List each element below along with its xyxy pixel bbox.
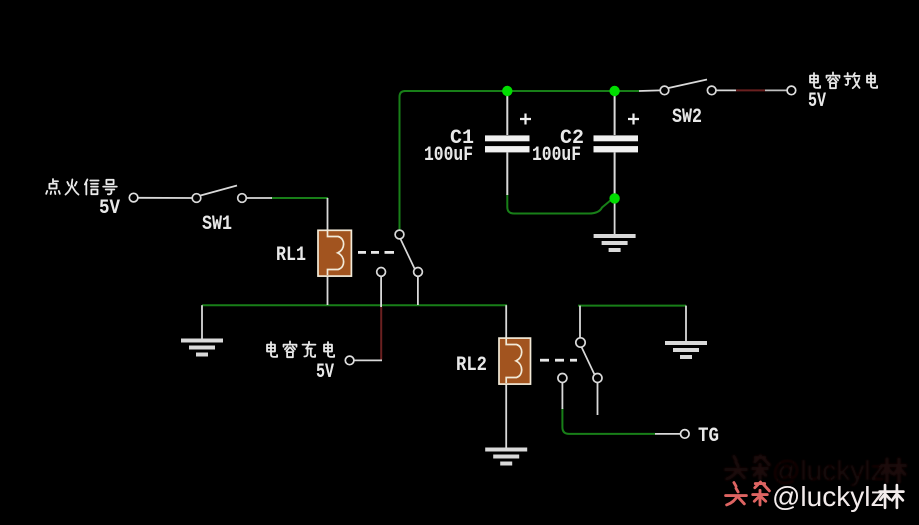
wire: RL2 throw-left pin (561, 383, 563, 409)
label 点火信号 (46, 179, 117, 194)
svg-text:RL1: RL1 (276, 244, 306, 267)
wire: ground rail right (green) (578, 305, 686, 307)
relay coil RL2 (499, 338, 531, 384)
switch SW1 (192, 186, 246, 203)
wire: top horizontal net to SW2 (404, 90, 639, 92)
wire: SW2 right stub white (716, 89, 736, 91)
dashed link RL1 (358, 251, 394, 254)
relay contact RL1 (SPDT) (377, 230, 423, 276)
wire: RL1 coil bottom pin (327, 275, 329, 305)
wire: RL1 coil top pin (327, 198, 329, 231)
svg-text:5V: 5V (316, 361, 334, 384)
relay contact RL2 (SPDT) (558, 338, 602, 383)
wire: RL2 contact to TG (green) (562, 408, 655, 434)
wire: C2 node to ground (614, 200, 616, 234)
terminal: charge (345, 356, 354, 365)
terminal: TG (681, 430, 690, 439)
ground: left (181, 341, 223, 355)
wire: RL2 throw-right pin (unconnected) (597, 383, 599, 415)
label 电容充电 (267, 341, 334, 357)
plus sign C2 (628, 114, 639, 125)
junction node: top net at C1 (502, 86, 512, 96)
wire: RL1 contact throw-right pin (417, 276, 419, 305)
junction node: C2 bottom (609, 193, 619, 203)
svg-text:100uF: 100uF (532, 144, 581, 167)
watermark ghost (726, 455, 906, 486)
terminal: discharge (787, 86, 796, 95)
svg-text:SW2: SW2 (672, 106, 702, 129)
svg-text:@luckylz: @luckylz (772, 481, 884, 512)
plus sign C1 (520, 114, 531, 125)
wire: RL1 contact throw-left pin (380, 276, 382, 307)
ground: right (665, 343, 707, 357)
wire: main vertical net to relay contact RL1 (400, 91, 406, 231)
capacitor C2 (594, 135, 639, 152)
ground: C2 (594, 236, 636, 250)
svg-text:RL2: RL2 (456, 354, 487, 377)
ground: RL2 (485, 450, 527, 464)
wire: SW1 to green net (white stub) (246, 197, 272, 199)
wire: RL2 contact common pin (579, 306, 581, 340)
svg-text:5V: 5V (99, 197, 120, 220)
terminal: ignition input (129, 193, 138, 202)
wire: C1 bottom pin (506, 153, 508, 196)
junction node: top net at C2 (609, 86, 619, 96)
label 电容放电 (810, 72, 877, 88)
wire: to discharge terminal (765, 89, 787, 91)
relay coil RL1 (318, 230, 351, 276)
capacitor C1 (485, 135, 530, 152)
svg-text:100uF: 100uF (424, 144, 473, 167)
wire: SW2 red segment (736, 89, 765, 91)
switch SW2 (660, 80, 716, 95)
wire: C2 top pin (614, 92, 616, 135)
wire: C1 top pin (506, 92, 508, 135)
wire: TG terminal stub (655, 433, 680, 435)
watermark 林 (880, 485, 904, 508)
watermark 头条 (726, 482, 770, 505)
wire: RL2 coil bottom pin (505, 383, 507, 448)
wire: SW1 output to RL1 (green horizontal) (271, 197, 328, 199)
svg-text:5V: 5V (808, 90, 826, 113)
wire: ground rail left (green) (202, 304, 507, 306)
wire: charge red vertical (380, 307, 382, 360)
wire: right ground stem (685, 306, 687, 341)
wire: left ground stem (201, 305, 203, 339)
svg-text:SW1: SW1 (202, 213, 232, 236)
wire: C2 bottom pin (614, 153, 616, 199)
wire: RL2 coil top pin (505, 305, 507, 339)
wire: charge terminal stub (354, 359, 382, 361)
wire: ignition terminal to SW1 (138, 197, 192, 199)
wire: C1 bottom bend to C2 bottom node (507, 194, 611, 214)
dashed link RL2 (540, 359, 577, 362)
wire: SW2 left stub (639, 89, 660, 92)
svg-text:TG: TG (698, 425, 719, 448)
